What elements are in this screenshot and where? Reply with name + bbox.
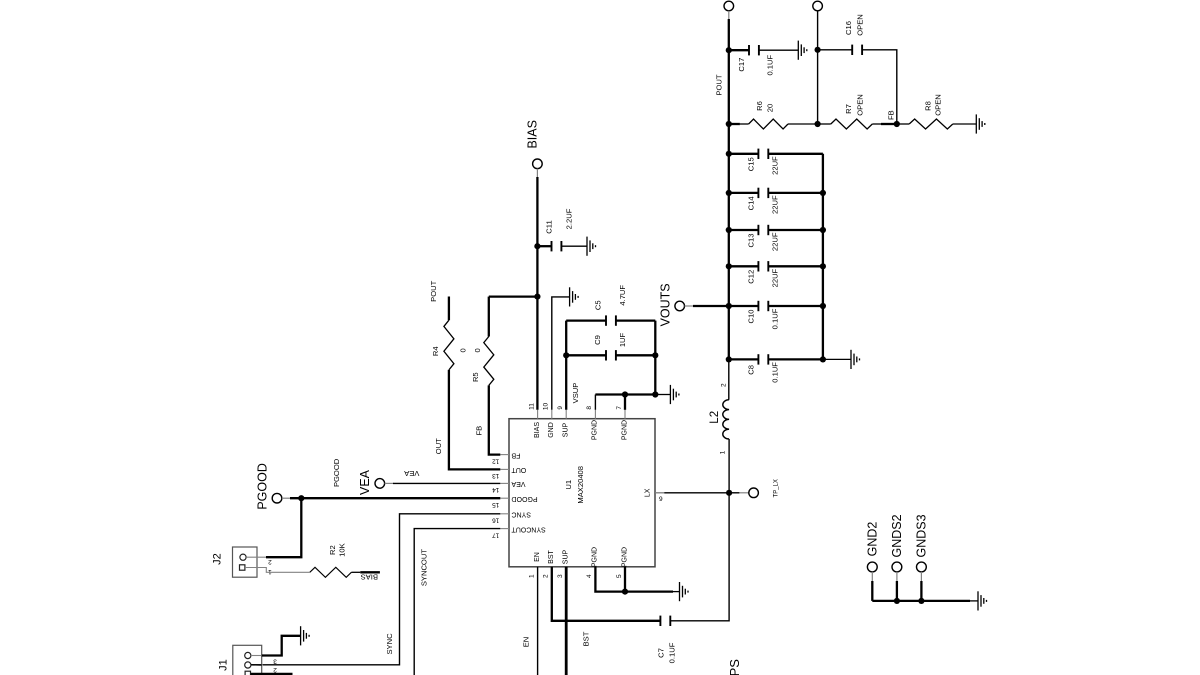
- capacitor C17: [749, 45, 759, 55]
- node junction R6 left: [726, 121, 732, 127]
- svg-text:OPEN: OPEN: [934, 94, 943, 116]
- wire VSUP vertical: [565, 321, 567, 410]
- svg-text:BIAS: BIAS: [361, 572, 378, 581]
- ground PGND top: [670, 385, 679, 404]
- wire VEA stub: [385, 482, 394, 484]
- svg-text:R7: R7: [844, 104, 853, 114]
- svg-text:POUT: POUT: [429, 280, 438, 301]
- svg-text:1: 1: [268, 568, 272, 575]
- capacitor C7: [660, 616, 670, 626]
- svg-text:POUT: POUT: [715, 74, 724, 95]
- svg-text:1: 1: [528, 574, 535, 578]
- wire C10 left: [729, 305, 759, 307]
- wire R4 top stub: [448, 297, 450, 321]
- pin 6 stub: [655, 492, 664, 494]
- svg-text:MAX20408: MAX20408: [576, 466, 585, 504]
- svg-text:0: 0: [458, 348, 467, 352]
- resistor R6: [749, 119, 788, 129]
- svg-text:2.2UF: 2.2UF: [565, 208, 574, 229]
- node junction right rail: [820, 190, 826, 196]
- svg-text:OPEN: OPEN: [855, 94, 864, 116]
- wire J1 pin3 lead: [251, 655, 263, 657]
- svg-text:PS: PS: [727, 659, 742, 675]
- ground PGND bottom: [680, 582, 689, 601]
- wire C16 right to FB: [862, 50, 897, 124]
- wire PGND pin5: [624, 567, 626, 592]
- svg-text:SYNCOUT: SYNCOUT: [420, 549, 429, 586]
- capacitor C5: [606, 315, 616, 325]
- svg-text:C7: C7: [657, 648, 666, 658]
- wire cap bank right rail: [822, 154, 824, 360]
- wire C8 right: [768, 358, 823, 360]
- capacitor C14: [758, 188, 768, 198]
- node junction right rail: [820, 356, 826, 362]
- svg-text:16: 16: [492, 517, 500, 524]
- node junction C16: [815, 47, 821, 53]
- resistor R5: [484, 337, 494, 386]
- ground GND bus: [978, 591, 987, 610]
- wire FB net stub: [881, 123, 897, 125]
- svg-text:0.1UF: 0.1UF: [770, 308, 779, 329]
- svg-text:10K: 10K: [338, 543, 347, 557]
- svg-text:C10: C10: [746, 310, 755, 324]
- wire C17 to ground: [759, 49, 798, 51]
- svg-text:22UF: 22UF: [770, 156, 779, 175]
- wire C5 right: [616, 319, 655, 321]
- node junction right rail: [820, 303, 826, 309]
- terminal TP_LX: [749, 488, 759, 498]
- wire SYNC: [251, 514, 500, 665]
- svg-text:1: 1: [720, 450, 727, 454]
- wire GNDS3 down: [920, 581, 922, 601]
- svg-text:BST: BST: [582, 631, 591, 646]
- svg-text:2: 2: [543, 574, 550, 578]
- node junction C14 left: [726, 190, 732, 196]
- capacitor C10: [758, 301, 768, 311]
- svg-text:0: 0: [473, 348, 482, 352]
- pin 12 stub: [500, 454, 509, 456]
- svg-text:4: 4: [586, 574, 593, 578]
- wire R5 top lead: [488, 297, 490, 337]
- wire R8 to ground: [953, 123, 977, 125]
- svg-text:1UF: 1UF: [618, 332, 627, 347]
- wire C5C9 right rail: [654, 321, 656, 395]
- wire PGND pin7 up: [624, 395, 626, 410]
- svg-text:12: 12: [492, 457, 500, 464]
- node junction GNDS2: [894, 598, 900, 604]
- wire L2 top lead: [728, 359, 730, 399]
- node junction PGOOD: [298, 495, 304, 501]
- wire C14 right: [768, 192, 823, 194]
- J1 pin 2 circle: [245, 662, 251, 668]
- svg-text:L2: L2: [709, 411, 721, 424]
- wire GND2 down: [871, 581, 873, 601]
- wire C11 left: [537, 245, 551, 247]
- capacitor C11: [552, 241, 562, 251]
- terminal BIAS: [533, 159, 543, 169]
- wire C12 right: [768, 265, 823, 267]
- svg-text:EN: EN: [522, 637, 531, 648]
- svg-text:6: 6: [659, 494, 663, 501]
- svg-text:OUT: OUT: [511, 466, 527, 473]
- svg-text:TP_LX: TP_LX: [773, 479, 779, 497]
- node junction C9 right: [652, 352, 658, 358]
- svg-text:22UF: 22UF: [770, 195, 779, 214]
- wire C5 top row: [566, 319, 606, 321]
- svg-text:C12: C12: [746, 270, 755, 284]
- svg-text:GND2: GND2: [865, 522, 879, 557]
- svg-text:VEA: VEA: [511, 480, 525, 487]
- ground J1: [301, 626, 310, 645]
- wire J1 pin2 lead: [251, 664, 263, 666]
- svg-text:EN: EN: [534, 552, 541, 562]
- node junction GNDS3: [918, 598, 924, 604]
- pin 16 stub: [500, 513, 509, 515]
- ground cap bank: [851, 350, 860, 369]
- terminal POUT top: [724, 1, 734, 11]
- svg-text:SYNC: SYNC: [385, 633, 394, 655]
- node junction right rail: [820, 263, 826, 269]
- svg-text:R2: R2: [328, 545, 337, 555]
- capacitor C8: [758, 354, 768, 364]
- wire C12 left: [729, 265, 759, 267]
- wire BST: [552, 567, 661, 621]
- svg-text:4.7UF: 4.7UF: [618, 285, 627, 306]
- wire J1 pin1: [251, 673, 293, 675]
- node junction PGND rail: [652, 391, 658, 397]
- svg-text:10: 10: [543, 403, 550, 411]
- J1 pin 3 circle: [245, 652, 251, 658]
- wire R5 top horizontal: [489, 295, 538, 297]
- wire SYNCOUT: [414, 529, 500, 675]
- svg-text:9: 9: [557, 406, 564, 410]
- capacitor C15: [758, 149, 768, 159]
- svg-text:17: 17: [492, 531, 500, 538]
- pin 14 stub: [500, 482, 509, 484]
- svg-text:C17: C17: [737, 58, 746, 72]
- node FB junction: [894, 121, 900, 127]
- pin 9 stub: [565, 410, 567, 419]
- wire TP_LX stub: [739, 492, 749, 494]
- svg-text:C5: C5: [594, 300, 603, 310]
- svg-text:R6: R6: [755, 101, 764, 111]
- wire R4 bottom to OUT pin: [449, 370, 500, 470]
- svg-text:22UF: 22UF: [770, 268, 779, 287]
- wire C13 right: [768, 229, 823, 231]
- wire VEA: [393, 482, 500, 484]
- wire C8 row to ground: [823, 358, 851, 360]
- wire R6 lead: [740, 123, 749, 125]
- wire ground bus thin: [969, 600, 978, 602]
- wire R8 lead left: [897, 123, 909, 125]
- wire J1 pin3 to ground: [262, 636, 301, 656]
- svg-text:FB: FB: [887, 110, 896, 120]
- pin 10 stub: [551, 410, 553, 419]
- svg-text:C14: C14: [746, 196, 755, 210]
- pin 7 stub: [624, 410, 626, 419]
- svg-text:GNDS2: GNDS2: [890, 514, 904, 557]
- svg-text:C13: C13: [746, 234, 755, 248]
- svg-text:FB: FB: [475, 426, 484, 436]
- svg-text:PGND: PGND: [592, 547, 599, 567]
- wire SUP pin3: [565, 567, 568, 675]
- terminal GNDS2: [892, 562, 902, 572]
- wire PGND top horizontal: [595, 393, 655, 395]
- node junction pin7 PGND: [622, 391, 628, 397]
- terminal VEA: [375, 479, 385, 489]
- svg-text:J1: J1: [217, 659, 229, 671]
- svg-text:J2: J2: [211, 553, 223, 565]
- pin 15 stub: [500, 497, 509, 499]
- capacitor C9: [606, 350, 616, 360]
- capacitor C13: [758, 225, 768, 235]
- wire GNDS3 stub: [920, 572, 922, 582]
- svg-text:VEA: VEA: [358, 469, 372, 495]
- wire GND2 stub: [871, 572, 873, 582]
- wire C17 left: [729, 49, 749, 51]
- svg-text:PGND: PGND: [621, 547, 628, 567]
- node junction right rail: [820, 227, 826, 233]
- wire C14 left: [729, 192, 759, 194]
- wire R7 right: [872, 123, 881, 125]
- svg-text:14: 14: [492, 486, 500, 493]
- wire C10 right: [768, 305, 823, 307]
- wire GNDS2 stub: [896, 572, 898, 582]
- wire PGOOD stub: [282, 497, 291, 499]
- svg-text:R5: R5: [471, 372, 480, 382]
- wire R5 bottom to FB pin: [489, 385, 501, 454]
- resistor R4: [444, 320, 454, 370]
- svg-text:5: 5: [616, 574, 623, 578]
- wire PGOOD to J2: [266, 498, 301, 557]
- node junction C17: [726, 47, 732, 53]
- capacitor C16: [852, 45, 862, 55]
- wire C15 right: [768, 153, 823, 155]
- pin 11 stub: [537, 410, 539, 419]
- wire R6 right: [788, 123, 818, 125]
- node junction R6 R7: [815, 121, 821, 127]
- J1 pin 1 square: [245, 671, 250, 675]
- inductor L2: [723, 400, 729, 439]
- wire terminal2 vertical: [817, 11, 819, 124]
- svg-text:SUP: SUP: [563, 549, 570, 564]
- wire LX: [664, 492, 729, 494]
- svg-text:2: 2: [721, 383, 728, 387]
- wire R6 left stub: [729, 123, 740, 125]
- wire L2 bottom lead: [728, 439, 730, 493]
- wire PGOOD: [290, 497, 500, 499]
- svg-text:C9: C9: [593, 335, 602, 345]
- capacitor C12: [758, 261, 768, 271]
- wire PGND pin4: [595, 567, 673, 592]
- wire VOUTS stub: [685, 305, 695, 307]
- svg-text:VEA: VEA: [403, 469, 419, 478]
- terminal VOUTS: [675, 301, 685, 311]
- wire C16 left: [818, 49, 853, 51]
- terminal GND2: [867, 562, 877, 572]
- svg-text:3: 3: [273, 657, 277, 664]
- node junction PGND bottom: [622, 589, 628, 595]
- node junction C11: [534, 243, 540, 249]
- svg-text:VOUTS: VOUTS: [658, 283, 672, 326]
- ground R8: [976, 114, 985, 133]
- svg-text:GND: GND: [548, 422, 555, 438]
- node junction C8 left: [726, 356, 732, 362]
- svg-text:2: 2: [268, 558, 272, 565]
- ground C11: [587, 237, 596, 256]
- wire PGND pin8 up: [594, 395, 596, 410]
- svg-text:GNDS3: GNDS3: [914, 514, 928, 557]
- svg-text:SUP: SUP: [563, 422, 570, 437]
- svg-text:PGOOD: PGOOD: [255, 463, 269, 510]
- svg-text:22UF: 22UF: [770, 232, 779, 251]
- ground C17: [798, 41, 807, 60]
- ground GND pin10: [570, 287, 579, 306]
- svg-text:OPEN: OPEN: [855, 14, 864, 36]
- wire VOUTS: [693, 305, 729, 307]
- wire C15 left: [729, 153, 759, 155]
- terminal top right: [813, 1, 823, 11]
- svg-text:3: 3: [557, 574, 564, 578]
- terminal GNDS3: [917, 562, 927, 572]
- svg-text:OUT: OUT: [434, 438, 443, 454]
- IC U1 body: [509, 419, 655, 567]
- wire POUT rail stub: [728, 11, 730, 20]
- svg-text:C11: C11: [545, 220, 554, 233]
- node junction C15 left: [726, 151, 732, 157]
- svg-text:BIAS: BIAS: [534, 422, 541, 438]
- wire J2 pin1 lead: [245, 568, 310, 573]
- wire J1 pin2 SYNC: [251, 664, 262, 666]
- svg-text:0.1UF: 0.1UF: [766, 55, 775, 76]
- wire R7 lead left: [818, 123, 831, 125]
- svg-text:8: 8: [586, 406, 593, 410]
- svg-text:11: 11: [528, 403, 535, 410]
- pin 13 stub: [500, 468, 509, 470]
- wire BIAS net stub: [360, 571, 380, 573]
- wire C13 left: [729, 229, 759, 231]
- resistor R8: [909, 119, 953, 129]
- node junction C10 left: [726, 303, 732, 309]
- svg-text:PGND: PGND: [592, 420, 599, 440]
- wire C8 left: [729, 358, 759, 360]
- svg-text:SYNCOUT: SYNCOUT: [511, 525, 546, 532]
- svg-text:VSUP: VSUP: [571, 383, 580, 404]
- wire R2 right: [351, 571, 360, 573]
- node junction C13 left: [726, 227, 732, 233]
- wire ground bus: [872, 600, 970, 602]
- node junction R5 BIAS: [534, 294, 540, 300]
- wire LX down to C7: [670, 493, 729, 621]
- wire LX stub: [655, 492, 664, 494]
- connector J2 body: [233, 547, 258, 577]
- svg-text:SYNC: SYNC: [512, 511, 531, 518]
- terminal PGOOD: [272, 493, 282, 503]
- J2 pin 1 square: [240, 565, 245, 570]
- node junction C12 left: [726, 263, 732, 269]
- wire LX to TP_LX: [729, 492, 740, 494]
- wire POUT vertical rail: [728, 19, 730, 359]
- svg-text:C15: C15: [746, 157, 755, 171]
- svg-text:C16: C16: [844, 21, 853, 35]
- wire C11 to ground: [561, 245, 587, 247]
- svg-text:0.1UF: 0.1UF: [770, 362, 779, 383]
- svg-text:PGOOD: PGOOD: [332, 458, 341, 487]
- wire GND pin10: [552, 297, 570, 410]
- svg-text:BIAS: BIAS: [526, 120, 540, 149]
- svg-text:20: 20: [766, 104, 775, 112]
- svg-text:LX: LX: [645, 488, 652, 497]
- pin 8 stub: [594, 410, 596, 419]
- resistor R2: [310, 567, 352, 577]
- svg-text:0.1UF: 0.1UF: [668, 642, 677, 663]
- svg-text:15: 15: [492, 501, 500, 508]
- wire EN: [537, 567, 539, 675]
- J2 pin 2 circle: [240, 554, 246, 560]
- wire PGND to ground: [655, 394, 670, 396]
- wire C9 right: [616, 354, 655, 356]
- svg-text:7: 7: [616, 406, 623, 410]
- pin 17 stub: [500, 528, 509, 530]
- svg-text:R4: R4: [431, 346, 440, 356]
- svg-text:13: 13: [492, 472, 500, 479]
- node LX junction: [726, 490, 732, 496]
- wire PGND bottom to ground: [673, 591, 680, 593]
- svg-text:R8: R8: [923, 101, 932, 111]
- node junction C9 left: [563, 352, 569, 358]
- wire J2 pin2 lead: [246, 556, 267, 558]
- svg-text:BST: BST: [548, 549, 555, 563]
- wire GNDS2 down: [896, 581, 898, 601]
- wire C9 left: [566, 354, 606, 356]
- svg-text:PGND: PGND: [621, 420, 628, 440]
- svg-text:PGOOD: PGOOD: [512, 495, 538, 502]
- svg-text:C8: C8: [746, 365, 755, 375]
- wire BIAS vertical: [536, 177, 538, 410]
- resistor R7: [831, 119, 873, 129]
- wire BIAS stub: [536, 169, 538, 178]
- svg-text:U1: U1: [564, 480, 573, 490]
- connector J1 body: [233, 645, 262, 675]
- svg-text:FB: FB: [511, 451, 520, 458]
- svg-text:2: 2: [273, 666, 277, 673]
